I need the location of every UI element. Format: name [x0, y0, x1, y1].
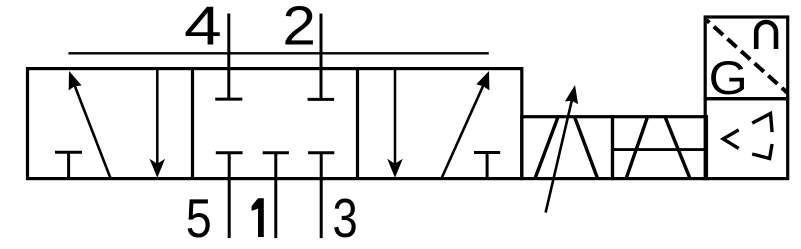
- chevron north-east: [752, 114, 772, 133]
- dashed diagonal line in top-right box: [707, 20, 788, 93]
- center box port 1 line: [274, 153, 277, 238]
- center box port 4 line: [227, 14, 230, 100]
- center box port 1 blocked T bar: [263, 151, 289, 154]
- center box port 5 line: [228, 153, 231, 238]
- left box vertical down arrow (2 to 3): [150, 69, 166, 178]
- horseshoe symbol in top-right box: [756, 22, 776, 49]
- center box port 2 blocked T bar: [308, 98, 335, 101]
- wire: divider between position 1 and position 2: [191, 69, 194, 179]
- adjustability arrow through box A: [546, 85, 579, 213]
- port label 1: [252, 198, 264, 237]
- right box blocked port T (port 3): [474, 153, 500, 179]
- box A solenoid left stroke: [535, 117, 558, 179]
- center box port 3 line: [320, 153, 323, 238]
- center box port 4 blocked T bar: [215, 98, 242, 101]
- box B horizontal mid line: [613, 148, 707, 151]
- center box port 2 line: [320, 14, 323, 100]
- actuator box B (pilot stage): [613, 117, 707, 179]
- top-right symbol box: [705, 17, 788, 99]
- box B left stroke: [626, 117, 647, 178]
- svg-text:2: 2: [282, 0, 316, 56]
- right box diagonal flow arrow (1 to 2): [441, 71, 489, 180]
- actuator box A (proportional solenoid): [522, 117, 613, 179]
- center box port 3 blocked T bar: [308, 151, 334, 154]
- wire: long horizontal line above valve: [68, 52, 488, 54]
- wire: divider between position 2 and position 3: [356, 69, 359, 179]
- center box port 5 blocked T bar: [216, 151, 243, 154]
- svg-text:3: 3: [333, 187, 358, 249]
- valve body outer rectangle: [28, 69, 522, 179]
- chevron south-east: [752, 144, 772, 159]
- box B right stroke: [665, 117, 690, 178]
- left box diagonal flow arrow (1 to 4): [69, 71, 111, 180]
- svg-text:5: 5: [186, 187, 212, 249]
- svg-text:4: 4: [184, 0, 222, 56]
- chevron west: [723, 130, 739, 149]
- bottom-right symbol box: [705, 99, 788, 179]
- left box blocked port T (port 5): [55, 152, 82, 178]
- box A solenoid right stroke: [575, 117, 598, 179]
- right box vertical down arrow (4 to 5): [387, 69, 403, 178]
